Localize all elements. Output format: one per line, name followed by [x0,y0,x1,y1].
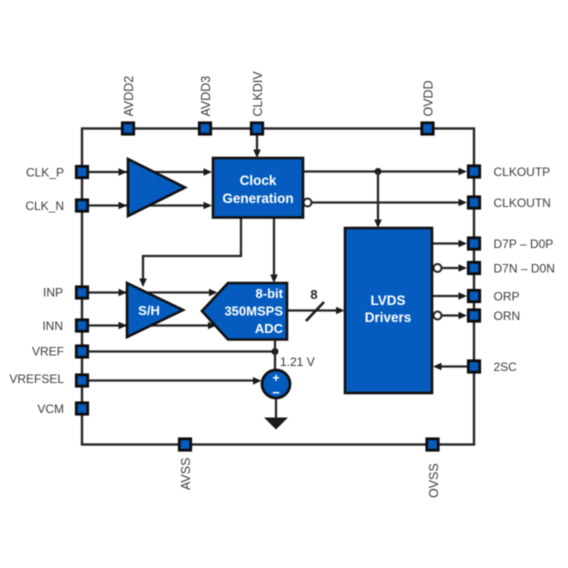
junction clock to LVDS [375,168,382,175]
svg-text:OVDD: OVDD [422,80,436,116]
reference V1 1.21V [262,370,290,400]
wire CLKDIV into clock generation [253,134,261,158]
svg-text:Generation: Generation [222,191,293,206]
pin CLKDIV [251,123,262,134]
svg-text:OVSS: OVSS [427,463,441,498]
junction VREF node [272,348,279,355]
pin OVDD [422,123,433,134]
svg-text:Clock: Clock [240,173,277,188]
pin CLKOUTN [468,197,479,208]
svg-text:CLKOUTN: CLKOUTN [494,196,551,210]
svg-text:VREFSEL: VREFSEL [9,372,64,386]
wire INP to S/H and ADC [89,289,218,297]
LVDS drivers block [345,228,432,393]
svg-text:AVDD2: AVDD2 [122,76,136,117]
svg-text:−: − [272,385,280,400]
ground [264,418,288,430]
svg-text:D7N – D0N: D7N – D0N [494,262,555,276]
pin VREF [76,346,87,357]
pin ORN [468,310,479,321]
svg-text:1.21 V: 1.21 V [280,355,315,369]
svg-text:Drivers: Drivers [365,310,412,325]
svg-text:AVSS: AVSS [179,458,193,490]
svg-text:2SC: 2SC [494,360,518,374]
op-amp clock buffer [128,159,185,216]
inversion bubble CLKOUTN [304,199,312,207]
wire D7P-D0P from LVDS [432,240,467,248]
pin CLK_N [76,200,87,211]
wire D7N-D0N from LVDS [442,264,468,272]
pin AVDD3 [199,123,210,134]
pin D7P-D0P [468,238,479,249]
svg-text:CLKOUTP: CLKOUTP [494,165,551,179]
svg-text:S/H: S/H [138,303,160,318]
ADC block [202,283,287,340]
wire CLKOUTP from clock generation [303,168,467,176]
svg-text:350MSPS: 350MSPS [224,304,283,319]
wire VREF to reference [89,350,275,352]
svg-text:INN: INN [42,319,63,333]
svg-text:VCM: VCM [37,402,64,416]
pin ORP [468,290,479,301]
svg-text:8-bit: 8-bit [256,286,284,301]
chip boundary [82,129,474,445]
svg-text:+: + [272,371,279,385]
pin D7N-D0N [468,262,479,273]
svg-text:LVDS: LVDS [370,293,405,308]
wire ADC data bus to LVDS drivers [287,307,345,315]
clock generation block [213,158,303,218]
svg-text:D7P – D0P: D7P – D0P [494,237,554,251]
wire ADC to reference V1 [274,340,276,371]
pin INN [76,320,87,331]
bus width slash [306,302,324,321]
wire CLK_P to clock buffer and clock generation [89,168,212,176]
inversion bubble ORN [434,312,442,320]
svg-text:ORP: ORP [494,290,520,304]
wire VREFSEL into reference V1 [89,377,262,385]
S/H amplifier [127,283,183,337]
pin VCM [76,403,87,414]
wire CLKOUTN from clock generation [312,199,468,207]
pin 2SC [468,361,479,372]
pin VREFSEL [76,375,87,386]
svg-text:INP: INP [43,286,63,300]
pin OVSS [427,439,438,450]
wire reference to ground [275,397,277,418]
wire clock to LVDS drivers [374,172,382,229]
wire clock generation to S/H (elbow) [139,217,241,287]
svg-text:AVDD3: AVDD3 [199,76,213,117]
wire CLK_N to clock buffer and clock generation [89,202,212,210]
wire ORN from LVDS [442,312,468,320]
wire ORP from LVDS [432,292,467,300]
svg-text:8: 8 [310,287,317,302]
wire INN to S/H and ADC [89,322,217,330]
svg-text:CLK_N: CLK_N [25,199,64,213]
inversion bubble D7N-D0N [434,264,442,272]
pin AVDD2 [122,123,133,134]
pin INP [76,287,87,298]
pin CLK_P [76,166,87,177]
pin AVSS [179,439,190,450]
wire 2SC into LVDS [433,363,467,371]
svg-text:CLKDIV: CLKDIV [251,71,265,117]
svg-text:ORN: ORN [494,309,521,323]
pin CLKOUTP [468,166,479,177]
svg-text:VREF: VREF [32,345,64,359]
svg-text:ADC: ADC [255,321,284,336]
svg-text:CLK_P: CLK_P [26,166,64,180]
wire clock generation to ADC [270,217,278,283]
